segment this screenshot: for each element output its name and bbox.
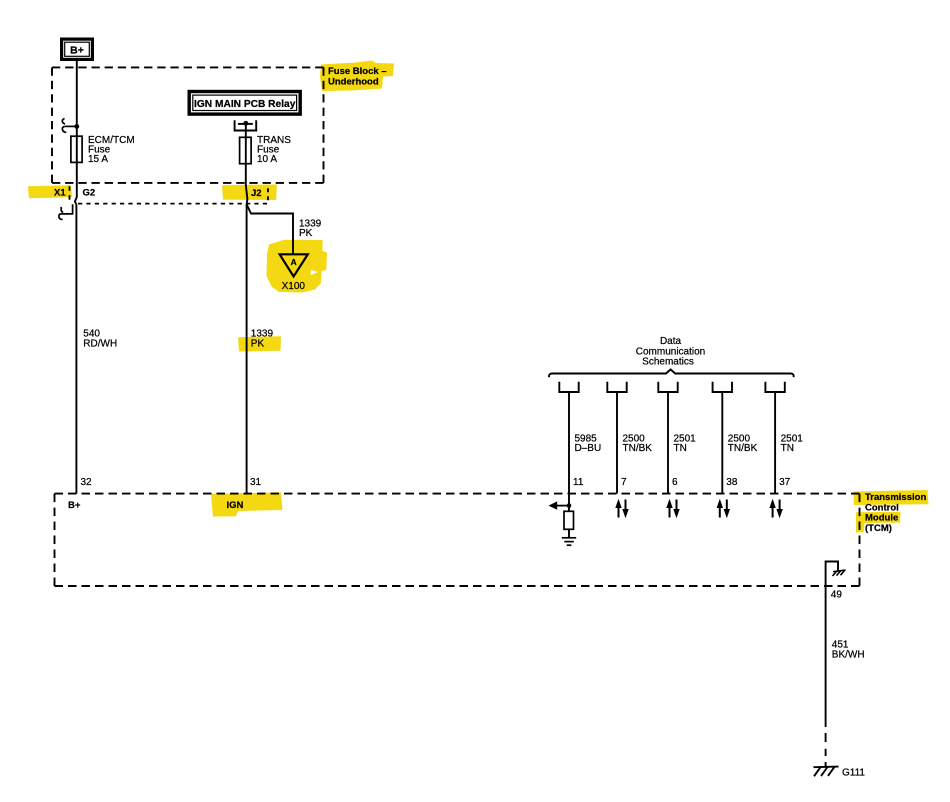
wire label: 451 BK/WH	[832, 639, 865, 660]
wire W3: 5985 D-BU	[568, 392, 570, 494]
data connector cup pin 7	[607, 382, 626, 392]
pin 11 internal: wire with left arrow	[568, 494, 570, 512]
svg-text:IGN: IGN	[227, 500, 244, 511]
highlighter marks (yellow)	[28, 61, 929, 533]
svg-text:TN: TN	[674, 443, 687, 454]
pin 37 bidirectional arrows	[769, 499, 782, 518]
wire: relay to TRANS fuse	[245, 124, 247, 164]
label: Data Communication Schematics	[636, 336, 705, 368]
data connector cup pin 38	[713, 382, 732, 392]
svg-text:IGN MAIN PCB Relay: IGN MAIN PCB Relay	[194, 99, 296, 110]
highlight: X100 splice blob	[267, 240, 328, 293]
svg-text:Underhood: Underhood	[328, 77, 379, 88]
svg-text:X100: X100	[282, 281, 306, 292]
svg-text:32: 32	[81, 477, 93, 488]
svg-text:10 A: 10 A	[257, 154, 277, 165]
svg-text:TN/BK: TN/BK	[728, 443, 758, 454]
highlight: Fuse Block label	[320, 61, 394, 92]
svg-text:BK/WH: BK/WH	[832, 650, 865, 661]
svg-text:B+: B+	[70, 44, 84, 56]
wire W7: 2501 TN	[774, 392, 776, 494]
white notch in X100 blob	[311, 270, 318, 276]
svg-text:A: A	[291, 257, 297, 267]
highlight: PK wire label	[238, 336, 281, 351]
pin 6 bidirectional arrows	[666, 499, 679, 518]
label: Fuse Block - Underhood	[328, 66, 387, 88]
pin 7 bidirectional arrows	[615, 499, 628, 518]
connector boundary lower dashed line	[78, 203, 267, 205]
connector hook below X1	[59, 204, 73, 219]
highlight: X1 label	[28, 185, 72, 198]
svg-text:G2: G2	[83, 188, 96, 199]
svg-text:B+: B+	[68, 500, 81, 511]
connector hook on B+ wire	[62, 119, 76, 133]
TCM dashed box	[55, 494, 860, 586]
battery feed B+ box	[62, 39, 93, 59]
data connector cup pin 6	[658, 382, 677, 392]
splice X100 triangle A	[280, 254, 308, 292]
label: Transmission Control Module (TCM)	[865, 492, 926, 534]
svg-text:(TCM): (TCM)	[865, 523, 892, 534]
svg-text:7: 7	[621, 477, 627, 488]
svg-text:TN/BK: TN/BK	[623, 443, 653, 454]
svg-text:6: 6	[672, 477, 678, 488]
value label: TRANS Fuse 10 A	[257, 135, 291, 165]
wire: TRANS fuse to J2	[246, 164, 248, 205]
svg-text:37: 37	[779, 477, 791, 488]
svg-text:49: 49	[831, 590, 843, 601]
wire W5: 2501 TN	[667, 392, 669, 494]
signal ground	[562, 538, 576, 545]
svg-text:15 A: 15 A	[88, 154, 108, 165]
svg-text:Schematics: Schematics	[642, 357, 694, 368]
fuse F2 TRANS 10A	[240, 137, 252, 163]
data connector cup pin 11	[559, 382, 578, 392]
highlight: Transmission line	[854, 490, 929, 505]
wire: branch from J2 to splice X100	[247, 204, 293, 254]
svg-text:G111: G111	[842, 768, 865, 779]
svg-text:38: 38	[726, 477, 738, 488]
svg-text:TN: TN	[781, 443, 794, 454]
connector boundary vertical dashes at X1	[69, 186, 71, 200]
connector labels X1 / G2	[54, 188, 95, 199]
svg-text:31: 31	[250, 477, 262, 488]
svg-text:Fuse Block –: Fuse Block –	[328, 66, 387, 77]
relay U1 IGN MAIN PCB Relay box	[189, 92, 300, 115]
internal chassis ground at pin 49	[826, 562, 838, 587]
highlight: IGN label	[211, 492, 283, 516]
wire label: 2501 TN	[674, 433, 697, 454]
junction dot on relay terminal	[243, 121, 248, 126]
svg-text:J2: J2	[251, 188, 262, 199]
connector boundary vertical dashes at J2	[267, 188, 269, 200]
fuse block dashed box	[52, 67, 324, 182]
wire: resistor to signal ground	[568, 529, 570, 537]
highlight: J2 label	[222, 185, 277, 201]
wire W1: 540 RD/WH down to TCM pin 32	[75, 205, 77, 494]
pin 38 bidirectional arrows	[717, 499, 730, 518]
ground G111	[814, 762, 839, 776]
wire label: 2500 TN/BK	[728, 433, 758, 454]
svg-text:PK: PK	[251, 338, 265, 349]
fuse F1 ECM/TCM 15A	[71, 136, 82, 162]
svg-text:RD/WH: RD/WH	[83, 338, 117, 349]
wire: B+ to ECM/TCM fuse	[76, 60, 78, 163]
wire W4: 2500 TN/BK	[616, 392, 618, 494]
svg-text:11: 11	[573, 477, 584, 488]
wire W8: 451 BK/WH	[825, 586, 827, 727]
relay output terminal cup	[235, 120, 257, 130]
wire label: 2501 TN	[781, 433, 804, 454]
value label: ECM/TCM Fuse 15 A	[88, 135, 135, 165]
wire label: 1339 PK	[251, 329, 274, 350]
wire: fuse to X1	[75, 162, 77, 204]
junction dot on B+ wire	[74, 124, 79, 129]
svg-text:X1: X1	[54, 188, 66, 199]
resistor inside TCM	[564, 511, 574, 529]
wire label: 2500 TN/BK	[623, 433, 653, 454]
data connector cup pin 37	[765, 382, 784, 392]
wire W6: 2500 TN/BK	[721, 392, 723, 494]
wire W2: IGN feed down to TCM pin 31	[246, 204, 248, 493]
wire label: 5985 D-BU	[575, 433, 602, 454]
highlight: Module + (TCM) sliver	[856, 512, 901, 533]
svg-text:PK: PK	[299, 228, 313, 239]
brace: Data Communication Schematics group	[549, 369, 794, 377]
wire label: 540 RD/WH	[83, 329, 117, 350]
wire label: 1339 PK (branch)	[299, 219, 322, 240]
svg-text:D–BU: D–BU	[575, 443, 602, 454]
